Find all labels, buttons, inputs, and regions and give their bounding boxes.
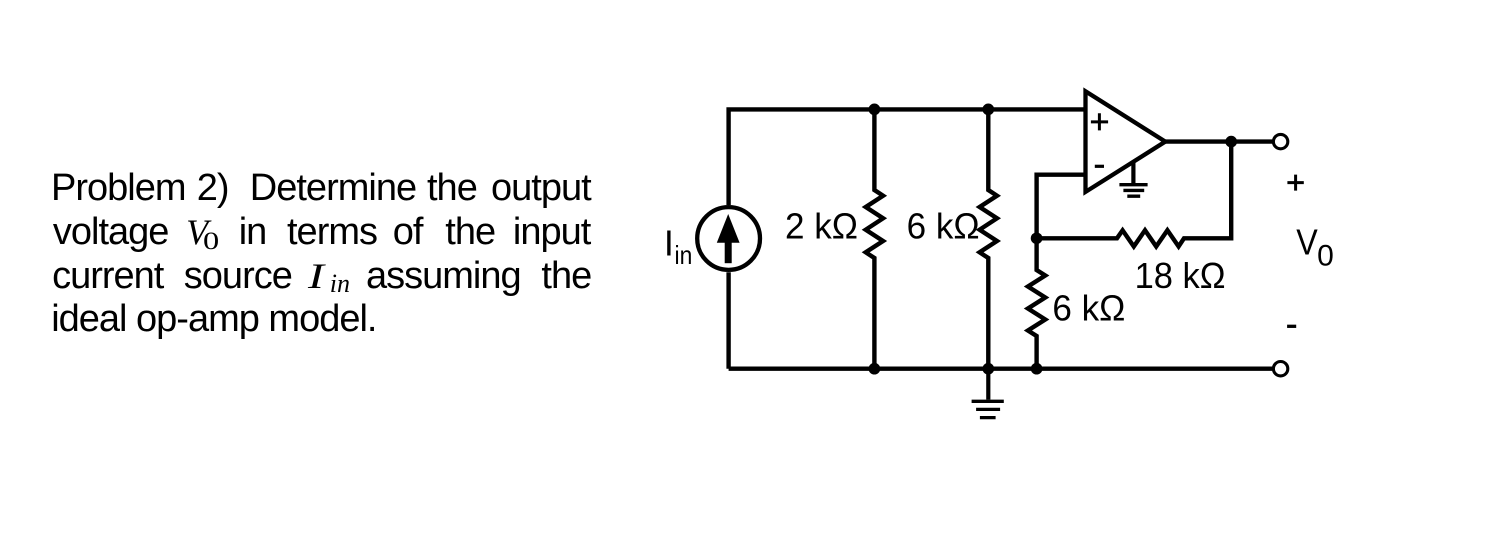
svg-text:in: in [675,240,693,270]
svg-text:6 kΩ: 6 kΩ [907,206,980,247]
svg-text:I: I [664,222,674,263]
svg-text:V: V [1296,222,1318,263]
svg-text:6 kΩ: 6 kΩ [1052,287,1125,328]
svg-text:0: 0 [1317,240,1334,273]
svg-text:2 kΩ: 2 kΩ [785,206,858,247]
svg-text:18 kΩ: 18 kΩ [1135,255,1226,296]
